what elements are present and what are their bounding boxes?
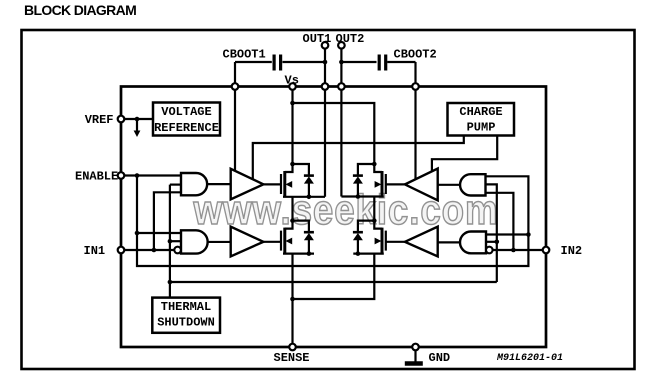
svg-text:ENABLE: ENABLE — [75, 170, 118, 184]
svg-text:VOLTAGE: VOLTAGE — [161, 105, 211, 119]
svg-text:PUMP: PUMP — [467, 121, 496, 135]
svg-text:THERMAL: THERMAL — [161, 300, 211, 314]
svg-text:BLOCK DIAGRAM: BLOCK DIAGRAM — [24, 2, 136, 18]
svg-text:IN1: IN1 — [84, 244, 106, 258]
svg-text:CHARGE: CHARGE — [459, 105, 502, 119]
svg-text:OUT2: OUT2 — [336, 32, 365, 46]
svg-text:CBOOT2: CBOOT2 — [394, 48, 437, 62]
svg-text:VREF: VREF — [85, 113, 114, 127]
svg-text:M91L6201-01: M91L6201-01 — [496, 353, 563, 364]
svg-text:IN2: IN2 — [561, 244, 583, 258]
svg-text:SENSE: SENSE — [274, 351, 310, 365]
svg-text:GND: GND — [429, 351, 451, 365]
svg-text:OUT1: OUT1 — [303, 32, 332, 46]
svg-text:SHUTDOWN: SHUTDOWN — [157, 316, 215, 330]
svg-text:REFERENCE: REFERENCE — [154, 121, 219, 135]
svg-text:Vs: Vs — [285, 74, 299, 88]
svg-text:CBOOT1: CBOOT1 — [223, 48, 266, 62]
